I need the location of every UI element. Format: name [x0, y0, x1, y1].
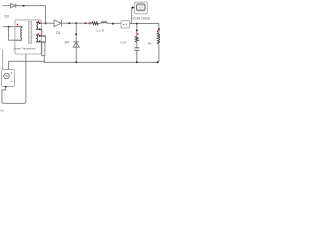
current measurement block U1 — [121, 21, 130, 28]
diode D3 — [11, 4, 16, 8]
svg-text:D1: D1 — [56, 31, 60, 35]
wire scope feed vertical with arrow — [132, 8, 134, 24]
svg-text:C1,R: C1,R — [120, 40, 126, 44]
primary polarity red dot — [17, 24, 19, 26]
secondary 1 stubs — [36, 23, 39, 30]
node primary bottom port — [14, 39, 16, 41]
wire primary bottom jog — [9, 27, 16, 41]
svg-text:L1, R: L1, R — [97, 29, 105, 33]
svg-text:D3: D3 — [5, 14, 9, 18]
inductor L1 coil — [101, 22, 107, 23]
node D4 anode on rail — [75, 61, 77, 63]
wire sec2-top stub — [41, 35, 46, 38]
node D1 out — [68, 22, 70, 24]
red marker on wire — [88, 22, 91, 24]
wire AC+ vertical — [8, 61, 10, 67]
red tick load — [157, 30, 158, 32]
node load bottom on rail — [157, 61, 159, 63]
node C1 port — [136, 29, 138, 31]
wire R to L — [98, 22, 101, 24]
node A junction sec1 top — [45, 22, 47, 24]
AC source block V1 — [2, 70, 15, 87]
wire D3 cathode to corner — [16, 5, 46, 7]
wire drop from D3 wire to secondary node — [45, 6, 47, 24]
wire into resistor — [86, 22, 92, 24]
wire AC- loop to transformer bottom — [2, 61, 26, 103]
secondary 2 winding coil — [36, 35, 37, 42]
svg-text:CCM Check: CCM Check — [133, 16, 151, 20]
node D4 mid — [75, 33, 77, 35]
node C1 bottom on rail — [136, 61, 138, 63]
primary winding coil — [21, 28, 22, 41]
wire top right corner down to load — [158, 24, 160, 33]
primary terminal stubs — [15, 27, 22, 41]
AC source top port arrows — [2, 68, 4, 70]
svg-text:Rs: Rs — [148, 42, 152, 46]
secondary 1 winding coil — [36, 23, 37, 30]
wire into capacitor — [136, 42, 138, 48]
svg-text:Vs: Vs — [0, 108, 4, 112]
diode D4 vertical pointing up — [73, 42, 79, 47]
node on D3 output wire — [23, 5, 25, 7]
wire L to current measurement — [107, 22, 121, 24]
wire sec1-top to D1 — [41, 22, 55, 24]
node filter input — [85, 22, 87, 24]
AC source bottom port node — [5, 86, 7, 88]
transformer block outline — [15, 20, 41, 54]
secondary 2 stubs — [36, 35, 39, 42]
wire transformer bottom port stub — [25, 54, 27, 61]
secondary 2 terminal squares — [39, 35, 41, 37]
svg-text:Linear Transformer: Linear Transformer — [14, 46, 36, 50]
capacitor branch resistor zigzag — [135, 36, 138, 42]
wire D3 anode top-left horizontal — [3, 5, 11, 7]
wire sec2-bottom down to rail — [41, 42, 45, 56]
svg-text:D4: D4 — [65, 41, 69, 45]
secondary 1 terminal squares — [39, 22, 41, 24]
wire primary top horizontal — [3, 26, 16, 28]
scope block CCM Check — [134, 2, 147, 14]
wire D4 branch vertical — [75, 23, 77, 62]
wire CM out — [130, 23, 159, 25]
node primary-top / AC+ junction — [8, 26, 10, 28]
node before CM — [112, 23, 114, 25]
wire sec1-bottom zigzag down to rail — [41, 29, 46, 62]
wire D1 cathode to filter — [61, 22, 85, 24]
secondary 2 red dot — [38, 33, 40, 35]
red tick on C1 branch — [137, 33, 138, 35]
wire capacitor to rail — [136, 50, 138, 62]
branch C1: wire from node down — [136, 24, 138, 37]
wire left vertical faint (D3 anode down to AC source left port) — [2, 50, 4, 68]
capacitor C1 plates — [134, 48, 139, 50]
node D4 top — [75, 22, 77, 24]
resistor R (series with L1) zigzag — [92, 22, 98, 25]
diode D1 — [54, 20, 61, 27]
wire load bottom to rail — [158, 44, 160, 62]
bottom rail wire — [9, 61, 159, 62]
load resistor R zigzag — [157, 33, 160, 45]
transformer core bar — [29, 22, 32, 44]
node C1 top — [136, 23, 138, 25]
node load port — [158, 28, 160, 30]
secondary 1 red dot — [38, 21, 40, 23]
